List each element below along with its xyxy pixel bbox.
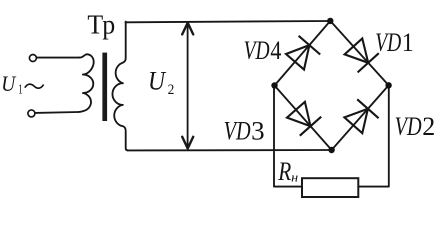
label tilde of U1: [25, 84, 44, 88]
U2 arrow head up: [182, 23, 193, 35]
diode VD2: [344, 99, 378, 133]
wire top rail: [126, 21, 331, 22]
diode VD3: [287, 102, 321, 136]
svg-text:VD: VD: [395, 112, 422, 141]
node left junction dot: [271, 82, 277, 88]
node bottom junction dot: [328, 147, 334, 153]
svg-text:1: 1: [402, 28, 414, 57]
wire bridge branch left-top: [275, 21, 331, 86]
svg-text:Тр: Тр: [87, 9, 115, 39]
diode VD1: [345, 39, 379, 73]
U2 arrow head down: [182, 137, 193, 149]
wire top terminal to primary: [37, 57, 80, 59]
svg-text:VD: VD: [224, 117, 251, 146]
svg-text:VD: VD: [244, 36, 270, 65]
wire left node down to load: [274, 86, 302, 187]
svg-text:2: 2: [422, 112, 435, 141]
U2 arrow shaft: [187, 24, 189, 147]
wire bottom terminal to primary: [35, 111, 79, 114]
transformer core: [102, 53, 107, 121]
diode VD4: [286, 36, 320, 70]
node right junction dot: [385, 82, 391, 88]
wire right node down to load: [358, 85, 389, 186]
svg-text:R: R: [277, 157, 291, 186]
svg-text:2: 2: [168, 82, 175, 98]
svg-text:4: 4: [270, 36, 281, 65]
svg-text:VD: VD: [375, 28, 401, 57]
node top junction dot: [327, 18, 333, 24]
svg-text:3: 3: [251, 117, 265, 146]
wire bottom rail secondary to bottom node: [128, 149, 332, 151]
transformer primary winding: [79, 54, 94, 112]
resistor Rn box: [302, 178, 358, 197]
wire bridge branch bottom-right: [332, 85, 389, 150]
svg-text:1: 1: [18, 83, 23, 98]
wire bridge branch top-right: [330, 21, 388, 85]
svg-text:н: н: [291, 169, 298, 184]
wire bridge branch left-bottom: [275, 86, 332, 151]
terminal bottom input: [28, 110, 35, 117]
transformer secondary winding: [112, 22, 127, 151]
terminal top input: [29, 55, 36, 62]
svg-text:U: U: [1, 71, 17, 96]
svg-text:U: U: [148, 66, 167, 95]
